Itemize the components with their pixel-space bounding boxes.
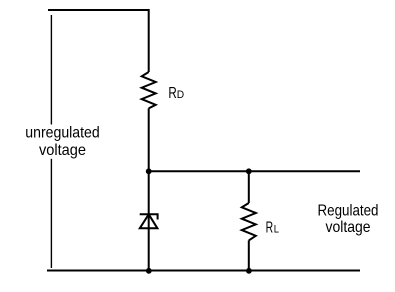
svg-text:D: D (177, 89, 184, 101)
svg-text:voltage: voltage (326, 219, 371, 236)
svg-text:voltage: voltage (39, 142, 86, 159)
svg-text:unregulated: unregulated (25, 124, 100, 141)
svg-text:Regulated: Regulated (318, 202, 379, 219)
svg-text:R: R (266, 220, 274, 237)
svg-text:R: R (168, 85, 176, 102)
svg-text:L: L (274, 224, 279, 236)
